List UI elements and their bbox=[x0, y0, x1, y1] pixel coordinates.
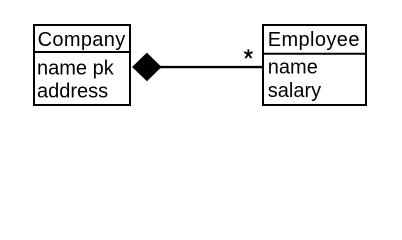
svg-text:Employee: Employee bbox=[268, 29, 360, 51]
svg-text:name: name bbox=[268, 57, 318, 79]
svg-text:Company: Company bbox=[38, 29, 126, 51]
composition diamond (filled, at Company end) bbox=[133, 53, 161, 80]
class box Employee bbox=[263, 25, 366, 105]
compartment separator (Employee) bbox=[262, 53, 367, 55]
multiplicity label "*" (near Employee end) bbox=[244, 49, 252, 58]
association line (Company to Employee) bbox=[158, 66, 262, 68]
compartment separator (Company) bbox=[33, 51, 131, 53]
svg-text:address: address bbox=[37, 81, 108, 103]
class box Company bbox=[34, 25, 130, 105]
svg-text:salary: salary bbox=[268, 80, 321, 102]
svg-text:name pk: name pk bbox=[37, 57, 115, 79]
